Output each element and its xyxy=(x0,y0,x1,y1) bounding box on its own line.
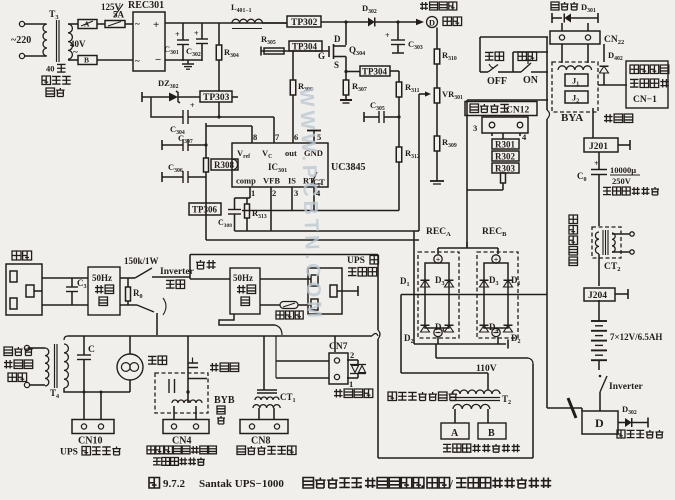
connector CN4 xyxy=(163,420,209,434)
wire pin2 xyxy=(270,187,272,231)
label 市电旁路-逆变器 xyxy=(147,446,155,454)
label 继电器 xyxy=(210,363,219,372)
label 零线 xyxy=(196,260,205,269)
svg-text:50Hz: 50Hz xyxy=(233,273,253,283)
svg-text:UPS: UPS xyxy=(60,448,78,458)
svg-text:D: D xyxy=(595,416,604,430)
resistor R308 xyxy=(204,158,209,172)
zener diode DZ302 xyxy=(169,93,178,102)
svg-text:REC301: REC301 xyxy=(128,0,164,11)
connector A xyxy=(441,423,469,439)
wire xyxy=(188,378,207,380)
connector CN12 xyxy=(482,117,528,133)
svg-text:S: S xyxy=(334,60,339,70)
svg-text:10000μ: 10000μ xyxy=(610,165,636,175)
relay BYA dashed box xyxy=(552,62,598,112)
test point TP304 xyxy=(289,41,322,51)
svg-text:~: ~ xyxy=(135,19,140,29)
potentiometer VR301 xyxy=(434,88,440,103)
transistor Q304 xyxy=(328,46,330,57)
wire xyxy=(467,189,503,191)
svg-text:UC3845: UC3845 xyxy=(331,162,365,173)
wire xyxy=(232,96,238,98)
wire xyxy=(337,290,358,292)
label 市电输入变压器 xyxy=(388,392,397,401)
wire xyxy=(125,23,133,25)
connector B xyxy=(478,423,506,439)
RECA minus node xyxy=(434,328,442,336)
wire xyxy=(615,293,628,295)
label 逆变器驱动板上的CN-1 xyxy=(630,65,639,74)
ground GND pin5 xyxy=(313,131,315,143)
resistor element xyxy=(501,173,506,183)
capacitor C304 xyxy=(182,110,184,124)
wire big box left xyxy=(377,255,379,331)
wire xyxy=(156,313,158,335)
label 充电板的CN12 xyxy=(465,102,537,116)
test point TP304 second xyxy=(360,66,390,76)
ground xyxy=(340,99,352,101)
label 风扇 xyxy=(148,356,157,364)
wire pin1 stub xyxy=(249,187,251,198)
relay contact xyxy=(187,336,189,403)
fuse 保险丝 xyxy=(280,302,298,309)
svg-text:D: D xyxy=(334,34,341,44)
svg-text:TP306: TP306 xyxy=(192,205,218,215)
RECA inner bridge xyxy=(425,263,449,328)
wire xyxy=(260,304,280,306)
wire OFF/ON rail xyxy=(480,36,548,38)
arrow into VR301 xyxy=(419,93,428,95)
diode D3b xyxy=(480,280,489,287)
svg-text:VFB: VFB xyxy=(263,176,280,186)
wire CN10 feeds xyxy=(83,392,85,420)
label 市电 xyxy=(12,251,21,260)
fan xyxy=(129,336,131,354)
svg-text:R303: R303 xyxy=(495,164,515,174)
wire C304 to VC pin xyxy=(188,116,274,118)
wire xyxy=(97,23,105,25)
svg-text:BYB: BYB xyxy=(214,395,235,406)
svg-text:TP304: TP304 xyxy=(362,66,388,76)
wire xyxy=(598,152,600,169)
transformer T2 xyxy=(452,390,500,394)
label 逆变器输出变压器 xyxy=(4,347,13,356)
ground xyxy=(187,60,189,64)
wire rail hop xyxy=(372,334,378,337)
wire big box right xyxy=(532,364,534,458)
node stub xyxy=(141,92,143,102)
wire xyxy=(598,300,600,321)
resistor R307 xyxy=(345,64,347,80)
connector CN22 xyxy=(550,31,600,44)
inductor L401-1 xyxy=(232,19,262,23)
svg-text:+: + xyxy=(194,29,199,38)
wire xyxy=(42,277,88,279)
wire xyxy=(260,278,311,280)
wire xyxy=(390,70,399,72)
switch inverter top blade xyxy=(135,268,152,278)
wire source to TP304 xyxy=(346,71,360,73)
relay coil xyxy=(558,66,592,70)
rectifier RECB dashed xyxy=(477,252,518,338)
wire xyxy=(598,360,600,370)
RECB minus node xyxy=(492,328,500,336)
wire output rail xyxy=(64,336,68,340)
svg-text:comp: comp xyxy=(236,176,256,186)
connector box CN-1 inverter driver board xyxy=(626,61,668,108)
diode D4 xyxy=(421,325,430,332)
wire xyxy=(546,352,548,408)
svg-text:TP304: TP304 xyxy=(292,41,318,51)
label 送至充电器控制板 xyxy=(443,444,451,451)
wire mid rail xyxy=(401,294,547,296)
svg-text:J201: J201 xyxy=(589,142,608,152)
wire VC pin7 riser xyxy=(273,117,275,143)
connector CN8 xyxy=(240,420,288,434)
label 过流检测信号 xyxy=(237,446,246,455)
box D charger feed xyxy=(582,411,618,434)
UPS outlet socket xyxy=(308,268,342,314)
svg-text:+: + xyxy=(175,30,180,39)
diode D3 xyxy=(445,280,454,287)
svg-text:−: − xyxy=(155,54,161,66)
resistor R311 xyxy=(396,82,402,97)
svg-text:5A: 5A xyxy=(113,10,125,20)
wire bottom rail A xyxy=(414,343,506,345)
wire xyxy=(561,44,563,63)
relay J204 xyxy=(584,288,615,301)
svg-text:40: 40 xyxy=(46,64,55,74)
svg-text:3: 3 xyxy=(294,188,298,198)
svg-text:R302: R302 xyxy=(495,152,515,162)
svg-text:2: 2 xyxy=(350,350,354,360)
RECA plus node xyxy=(434,255,442,263)
wire xyxy=(97,59,133,61)
svg-text:1: 1 xyxy=(251,188,255,198)
capacitor C3 xyxy=(71,278,73,287)
wire xyxy=(400,295,402,374)
capacitor C308 xyxy=(234,198,236,209)
node D battery positive xyxy=(427,17,438,28)
svg-text:B: B xyxy=(488,428,495,439)
wire T4 bottom xyxy=(64,388,130,392)
mains plug xyxy=(6,264,42,315)
bridge rectifier REC301 xyxy=(133,12,165,71)
label R308 box xyxy=(211,159,238,170)
svg-text:D: D xyxy=(429,18,435,28)
wire bottom rails xyxy=(235,230,415,232)
svg-text:~220: ~220 xyxy=(11,35,31,46)
wire xyxy=(25,23,46,25)
svg-text:Santak UPS−1000: Santak UPS−1000 xyxy=(199,478,284,490)
svg-text:3: 3 xyxy=(473,123,477,133)
bold mark xyxy=(568,398,576,418)
resistor R301 box xyxy=(492,139,519,149)
diode D4b xyxy=(480,325,489,332)
label 继电器 xyxy=(604,114,613,123)
resistor R312 xyxy=(396,147,402,162)
wire pin3 pin4 xyxy=(291,187,293,211)
label 整流滤波电容 xyxy=(603,187,611,194)
wire corner to C304 xyxy=(151,97,183,117)
svg-text:9.7.2: 9.7.2 xyxy=(163,478,186,490)
arrow xyxy=(416,19,424,25)
switch Inverter xyxy=(600,376,607,392)
node AC input terminals xyxy=(19,21,24,26)
svg-text:TP302: TP302 xyxy=(291,18,318,28)
svg-text:7×12V/6.5AH: 7×12V/6.5AH xyxy=(610,332,662,342)
relay BYB dashed box xyxy=(155,373,208,413)
wire xyxy=(68,23,78,25)
capacitor C305 xyxy=(363,112,365,122)
wire xyxy=(487,373,489,390)
diode D302 xyxy=(368,18,375,27)
label 充电板 D301 xyxy=(551,2,559,10)
filter 50Hz box 2 xyxy=(230,268,260,314)
svg-text:CN7: CN7 xyxy=(329,342,348,352)
caption xyxy=(149,478,160,489)
label 供电转换控制 xyxy=(153,458,161,465)
wire bridge bottoms xyxy=(437,337,439,344)
svg-text:~: ~ xyxy=(135,56,140,66)
svg-text:250V: 250V xyxy=(612,176,632,186)
wire IC bottom loop xyxy=(242,210,399,212)
battery 7x12V xyxy=(591,320,607,322)
wire xyxy=(436,28,438,50)
wire xyxy=(321,21,368,23)
wire xyxy=(142,96,169,98)
svg-text:G: G xyxy=(318,51,325,61)
transformer T4 input terminals xyxy=(24,345,29,350)
relay contact arm xyxy=(168,379,170,393)
RECB plus node xyxy=(492,255,500,263)
resistor R304 xyxy=(218,23,220,45)
test point TP302 xyxy=(287,16,321,27)
svg-text:50Hz: 50Hz xyxy=(92,273,112,283)
current transformer CT1 xyxy=(257,389,277,391)
svg-text:2: 2 xyxy=(272,188,276,198)
label 到电池组 正端 xyxy=(420,2,428,10)
resistor R303 box xyxy=(492,163,519,173)
wire xyxy=(467,99,548,101)
label 常闭 OFF xyxy=(485,52,494,60)
svg-text:150k/1W: 150k/1W xyxy=(124,256,159,266)
wire rectifier minus rail xyxy=(165,59,202,61)
diode D1 xyxy=(421,280,430,287)
connector CN10 xyxy=(72,420,114,434)
wire gate xyxy=(261,50,329,52)
wire xyxy=(598,254,600,286)
switch OFF normally closed xyxy=(480,71,488,73)
wire to battery node xyxy=(393,21,422,23)
svg-text:+: + xyxy=(153,19,159,31)
relay J201 wire xyxy=(592,108,594,138)
transformer T3 xyxy=(43,24,47,56)
fuse A xyxy=(78,20,97,29)
resistor R0 xyxy=(120,277,135,279)
svg-text:A: A xyxy=(451,428,459,439)
op-amp U IC301 UC3845 box xyxy=(232,143,328,187)
svg-text:R301: R301 xyxy=(495,140,515,150)
wire A B feeds xyxy=(454,409,456,423)
relay J201 xyxy=(584,138,618,152)
wire big box bottom xyxy=(378,457,533,459)
svg-text:UPS: UPS xyxy=(347,256,365,266)
svg-text:B: B xyxy=(84,56,89,65)
wire CT1 feed xyxy=(263,336,265,390)
wire to CN-1 xyxy=(598,84,627,86)
svg-text:C: C xyxy=(88,345,95,355)
svg-text:1: 1 xyxy=(349,379,353,389)
wire bottom rail B xyxy=(435,344,437,358)
capacitor C303 xyxy=(397,22,399,40)
capacitor C0 xyxy=(591,169,607,171)
resistor R302 box xyxy=(492,151,519,161)
svg-text:A: A xyxy=(84,20,90,29)
capacitor C xyxy=(83,336,85,355)
svg-text:+: + xyxy=(385,31,390,40)
svg-text:110V: 110V xyxy=(476,364,497,374)
wire xyxy=(334,336,336,352)
label 静态开关 xyxy=(334,389,343,398)
svg-text:8: 8 xyxy=(253,132,257,142)
svg-text:out: out xyxy=(285,148,297,158)
capacitor C307 xyxy=(161,140,163,150)
svg-text:CN10: CN10 xyxy=(78,436,102,447)
wire 零线 rail xyxy=(190,254,378,256)
label 电流互感器 vertical xyxy=(569,215,578,224)
relay contact J2 xyxy=(565,91,588,103)
svg-text:ON: ON xyxy=(523,75,539,86)
diode D1b xyxy=(504,280,513,287)
svg-text:TP303: TP303 xyxy=(203,93,230,103)
svg-text:+: + xyxy=(594,159,599,168)
svg-text:BYA: BYA xyxy=(561,112,583,124)
svg-text:Inverter: Inverter xyxy=(609,382,644,392)
diode D402 xyxy=(603,44,605,62)
triac static switch xyxy=(350,364,366,366)
capacitor C302 xyxy=(201,23,203,39)
RECB inner bridge xyxy=(484,263,508,328)
label 常开 ON xyxy=(518,52,527,61)
test point TP306 xyxy=(189,203,221,215)
node gate stub xyxy=(260,47,262,56)
wire riser to VR301 wiper xyxy=(418,94,420,231)
svg-text:CN8: CN8 xyxy=(251,436,270,447)
resistor R306 xyxy=(292,51,294,80)
svg-text:IS: IS xyxy=(288,176,296,186)
wire CN8 feeds xyxy=(258,408,260,420)
svg-text:CN−1: CN−1 xyxy=(633,95,657,105)
resistor R310 xyxy=(434,49,440,64)
wire xyxy=(561,23,563,31)
wire CN4 feeds xyxy=(173,406,175,420)
wire drain xyxy=(345,22,347,45)
connector CN7 xyxy=(329,353,348,384)
current transformer CT2 xyxy=(592,227,621,258)
svg-text:+: + xyxy=(190,101,195,110)
capacitor C301 xyxy=(182,23,184,40)
wire Vref pin8 branch xyxy=(206,125,252,127)
resistor R309 xyxy=(434,136,440,151)
wire CN7 left xyxy=(275,336,277,378)
relay contact J1 xyxy=(565,74,588,86)
resistor R313 xyxy=(246,198,248,204)
wire main right rail xyxy=(546,37,548,110)
wire xyxy=(502,133,504,139)
fuse 125V/5A xyxy=(105,21,125,28)
wire bridge feed xyxy=(438,247,498,249)
wire xyxy=(205,123,207,158)
resistor R305 xyxy=(264,48,284,54)
CT2 secondary terminals xyxy=(612,233,630,235)
rectifier RECA dashed xyxy=(418,252,459,338)
ground xyxy=(430,180,444,182)
fuse B xyxy=(78,56,97,65)
diode D2b xyxy=(504,325,513,332)
wire pin1 net xyxy=(235,197,251,199)
diode D302 bottom xyxy=(618,422,625,424)
wire filter2 bottom loop xyxy=(219,314,275,325)
label 来自充电板 xyxy=(617,430,625,438)
svg-text:J204: J204 xyxy=(588,291,607,301)
capacitor C306 xyxy=(161,172,163,182)
wire battery rail xyxy=(165,22,287,24)
test point TP303 xyxy=(200,91,232,102)
svg-text:OFF: OFF xyxy=(487,76,507,87)
wire neutral tap xyxy=(189,255,191,280)
diode D2 xyxy=(445,325,454,332)
relay BYB coil xyxy=(172,400,202,403)
transformer T4 xyxy=(45,348,49,386)
filter 50Hz box 1 xyxy=(88,267,120,315)
label 保险丝 xyxy=(276,311,284,319)
diode D301 xyxy=(551,13,553,23)
svg-text:CN4: CN4 xyxy=(172,436,191,447)
switch ON normally open xyxy=(512,52,514,72)
svg-text:CN12: CN12 xyxy=(506,106,529,116)
wire xyxy=(618,144,630,146)
switch inverter bottom blade xyxy=(120,304,137,306)
wire xyxy=(178,96,200,98)
